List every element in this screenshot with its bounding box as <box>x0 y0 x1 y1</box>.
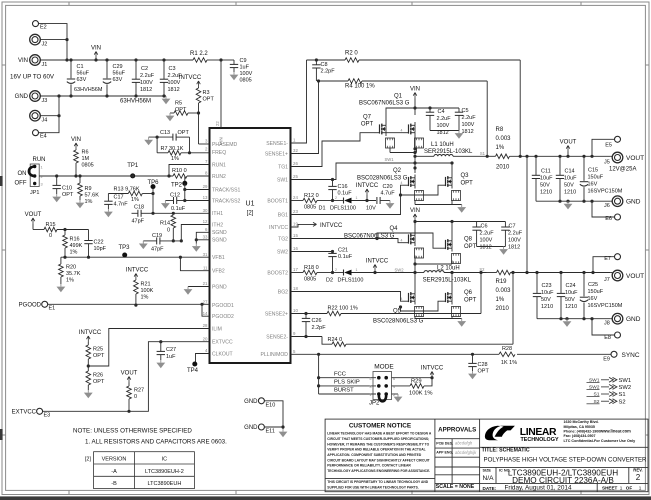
svg-text:R22 100 1%: R22 100 1% <box>328 306 358 312</box>
connector E5 <box>615 136 621 142</box>
svg-text:2: 2 <box>335 196 337 200</box>
svg-text:PGOOD: PGOOD <box>19 303 42 309</box>
wire BG1 to low-side gates <box>291 185 404 214</box>
resistor R19 0.003 1% <box>497 270 511 275</box>
capacitor C8 2.2pF <box>315 60 317 65</box>
svg-text:0.1uF: 0.1uF <box>338 254 353 260</box>
connector E9 SYNC <box>611 351 617 357</box>
svg-text:C26: C26 <box>312 318 322 324</box>
JP2 shunt pins 1-2 <box>379 395 386 401</box>
ground left of R5 <box>169 113 171 116</box>
svg-text:SENSE2+: SENSE2+ <box>265 311 288 317</box>
svg-text:1%: 1% <box>131 197 139 203</box>
svg-text:LINEAR TECHNOLOGY HAS MADE A B: LINEAR TECHNOLOGY HAS MADE A BEST EFFORT… <box>327 432 432 436</box>
svg-text:1%: 1% <box>496 297 505 303</box>
resistor R13 <box>108 193 128 195</box>
wire SW1 pin to node <box>291 163 416 180</box>
connector J2 <box>30 34 41 45</box>
capacitor C5 2.2uF <box>458 108 460 112</box>
svg-text:50V: 50V <box>564 183 574 189</box>
resistor R3 OPT <box>196 88 201 103</box>
svg-text:C10: C10 <box>62 186 72 192</box>
svg-text:HOWEVER, IT REMAINS THE CUSTOM: HOWEVER, IT REMAINS THE CUSTOMER'S RESPO… <box>327 442 429 446</box>
svg-text:4: 4 <box>401 129 403 133</box>
svg-text:0.003: 0.003 <box>496 288 512 294</box>
resistor R24 0 <box>332 342 346 347</box>
svg-text:16V: 16V <box>588 182 598 188</box>
transistor Q4 source pads <box>415 248 424 258</box>
jumper JP1 RUN select <box>30 164 39 187</box>
resistor R22 100 1% <box>327 311 341 316</box>
wire ILIM to divider <box>88 329 209 367</box>
svg-text:abcdefgh: abcdefgh <box>455 441 473 446</box>
svg-text:CUSTOMER NOTICE: CUSTOMER NOTICE <box>349 422 412 429</box>
resistor R9 57.6K <box>79 176 81 183</box>
test point TP6 <box>151 184 156 189</box>
svg-text:INTVCC: INTVCC <box>320 223 343 229</box>
wire SENSE2- line with R24 <box>291 336 323 338</box>
svg-text:1: 1 <box>639 485 642 490</box>
svg-text:499K: 499K <box>70 243 83 249</box>
transistor Q2 source pads <box>415 191 424 201</box>
svg-text:L1 10uH: L1 10uH <box>431 142 454 148</box>
wire BG2 to low-side gates phase2 <box>291 292 404 302</box>
wire SENSE1- to R2 line <box>291 60 307 143</box>
connector E10 GND <box>258 398 264 404</box>
svg-text:R10 0: R10 0 <box>172 168 187 174</box>
svg-text:C20: C20 <box>383 184 393 190</box>
svg-text:63V: 63V <box>77 77 87 83</box>
ground below C7 <box>503 247 505 250</box>
svg-text:S1: S1 <box>480 151 486 156</box>
svg-text:10pF: 10pF <box>94 246 107 252</box>
svg-text:2010: 2010 <box>496 306 510 312</box>
wire TG1 to gates <box>291 133 375 167</box>
svg-text:100V: 100V <box>480 238 493 244</box>
wire R4 down to S1 <box>486 81 488 156</box>
ground low-side phase1 <box>461 205 463 208</box>
svg-text:1: 1 <box>369 393 371 397</box>
svg-text:12: 12 <box>203 219 208 224</box>
wire mode select verticals <box>318 354 320 394</box>
wire E7 tie <box>593 257 614 273</box>
svg-text:E11: E11 <box>266 429 275 435</box>
svg-text:R9: R9 <box>85 186 92 192</box>
svg-text:C13: C13 <box>160 130 170 136</box>
svg-text:BSC028N06LS3 G: BSC028N06LS3 G <box>373 319 424 325</box>
wire BOOST2 line <box>291 272 304 274</box>
ground below C5 <box>458 131 460 134</box>
svg-text:E3: E3 <box>44 413 51 419</box>
svg-text:J5: J5 <box>604 160 610 166</box>
svg-text:TP3: TP3 <box>118 245 130 251</box>
wire FREQ loop sides <box>156 137 158 153</box>
svg-text:TP4: TP4 <box>187 368 199 374</box>
svg-text:SGND: SGND <box>212 238 227 244</box>
svg-text:SW2: SW2 <box>619 385 632 391</box>
resistor R10 <box>173 174 187 179</box>
svg-text:16SVPC150M: 16SVPC150M <box>588 303 623 309</box>
capacitor C14 10uF <box>558 155 561 158</box>
connector J8 GND <box>612 313 623 324</box>
svg-text:GND: GND <box>626 199 641 206</box>
svg-text:1812: 1812 <box>480 245 492 251</box>
svg-text:2.2uF: 2.2uF <box>437 116 452 122</box>
svg-text:20: 20 <box>203 336 208 341</box>
capacitor C19 47pF <box>143 240 156 242</box>
svg-text:26: 26 <box>293 161 298 166</box>
svg-text:PHASEMD: PHASEMD <box>212 142 238 148</box>
svg-text:0805: 0805 <box>304 205 316 211</box>
ground left of C13 <box>148 137 150 140</box>
node VIN label at rail <box>94 52 98 58</box>
svg-text:2: 2 <box>335 268 337 272</box>
resistor R15 <box>33 229 44 231</box>
svg-text:TRACK/SS1: TRACK/SS1 <box>212 187 240 193</box>
svg-text:2.2pF: 2.2pF <box>312 325 327 331</box>
svg-text:17: 17 <box>293 267 298 272</box>
resistor R28 1K <box>499 352 515 357</box>
svg-text:R21: R21 <box>141 282 151 288</box>
svg-text:DATE:: DATE: <box>483 486 497 491</box>
svg-text:BURST: BURST <box>334 388 354 394</box>
svg-text:SUPPLIED FOR USE WITH LINEAR T: SUPPLIED FOR USE WITH LINEAR TECHNOLOGY … <box>327 486 419 490</box>
svg-text:R19: R19 <box>496 279 508 285</box>
svg-text:J3: J3 <box>42 98 48 104</box>
connector J1 VIN input <box>30 55 41 66</box>
wire R22 up to S2 <box>480 273 482 314</box>
svg-text:R25: R25 <box>93 347 103 353</box>
capacitor C25 150uF polarized <box>582 271 585 274</box>
svg-text:10uF: 10uF <box>565 290 578 296</box>
svg-text:TP1: TP1 <box>127 163 139 169</box>
svg-text:3: 3 <box>369 385 371 389</box>
wire VFB1 line <box>61 256 210 258</box>
svg-text:J2: J2 <box>42 42 48 48</box>
wire low-side source rail phase1 <box>414 201 416 205</box>
svg-text:63HVH56M: 63HVH56M <box>120 99 151 105</box>
resistor R25 OPT <box>86 345 91 359</box>
capacitor C3 <box>163 60 165 79</box>
svg-text:PGOOD1: PGOOD1 <box>212 303 234 309</box>
connector E11 GND <box>258 424 264 430</box>
svg-text:1%: 1% <box>70 250 78 256</box>
transistor Q5 source pads <box>415 307 424 317</box>
capacitor C2 <box>135 60 137 79</box>
connector J7 VOUT <box>612 270 623 281</box>
connector E4 <box>33 130 39 136</box>
connector J6 GND <box>612 196 623 207</box>
svg-text:SHEET: SHEET <box>602 485 618 490</box>
resistor R14 <box>171 215 176 228</box>
svg-text:30: 30 <box>203 208 208 213</box>
svg-text:BG1: BG1 <box>278 212 288 218</box>
svg-text:C29: C29 <box>113 64 123 70</box>
svg-text:J6: J6 <box>604 203 610 209</box>
svg-text:1210: 1210 <box>564 190 576 196</box>
svg-text:R4 100 1%: R4 100 1% <box>345 84 375 90</box>
wire SW2 pin to boost cap <box>291 251 333 253</box>
ground JP2 pin2 <box>392 393 399 395</box>
ground below C17 <box>107 209 109 212</box>
svg-text:50V: 50V <box>541 297 551 303</box>
svg-text:C4: C4 <box>438 109 445 115</box>
svg-text:4.7nF: 4.7nF <box>114 202 129 208</box>
svg-text:JP2: JP2 <box>369 401 380 407</box>
capacitor C20 4.7uF <box>376 197 378 204</box>
svg-text:35.7K: 35.7K <box>66 271 81 277</box>
svg-text:VIN: VIN <box>71 137 81 143</box>
svg-text:BG2: BG2 <box>278 289 288 295</box>
ground SGND <box>195 244 197 247</box>
svg-text:R14: R14 <box>160 221 170 227</box>
wire cap bottoms rail1 <box>536 200 611 202</box>
svg-text:R18 0: R18 0 <box>304 265 319 271</box>
svg-text:C19: C19 <box>152 233 162 239</box>
svg-text:R20: R20 <box>66 265 76 271</box>
svg-text:100V: 100V <box>140 80 153 86</box>
svg-text:RUN1: RUN1 <box>212 162 226 168</box>
svg-text:R2 0: R2 0 <box>345 51 358 57</box>
capacitor C23 10uF <box>535 271 538 274</box>
capacitor C17 4.7nF <box>107 194 109 202</box>
svg-text:GND: GND <box>244 425 258 431</box>
svg-text:PGOOD2: PGOOD2 <box>212 314 234 320</box>
svg-text:100V: 100V <box>462 122 475 128</box>
svg-text:1: 1 <box>356 196 358 200</box>
svg-text:R7 30.1K: R7 30.1K <box>161 146 184 152</box>
wire E6 tie <box>592 201 614 217</box>
wire RUN1 tie <box>169 165 210 177</box>
test point TP2 <box>184 176 186 183</box>
ground low-side phase2 <box>461 319 463 322</box>
svg-text:1uF: 1uF <box>240 65 250 71</box>
svg-text:www.linear.com: www.linear.com <box>599 428 631 433</box>
connector E1 PGOOD <box>42 301 48 307</box>
svg-text:31: 31 <box>203 252 208 257</box>
wire Q3 drain to SW1 <box>451 163 453 175</box>
resistor R12 0 <box>303 198 317 203</box>
svg-text:10uF: 10uF <box>541 290 554 296</box>
svg-text:PERFORMANCE OR RELIABILITY. C: PERFORMANCE OR RELIABILITY. CONTACT LINE… <box>327 464 411 468</box>
svg-text:R5: R5 <box>175 101 182 107</box>
svg-text:SENSE2-: SENSE2- <box>266 334 288 340</box>
svg-text:PGND: PGND <box>212 284 227 290</box>
ground left of C12 <box>164 201 166 204</box>
svg-text:-A: -A <box>111 469 117 475</box>
wire RUN rail to RUN2 <box>39 175 173 177</box>
resistor R26 OPT <box>86 371 91 385</box>
ground at input rail <box>165 96 167 99</box>
Linear Technology logo <box>485 426 515 441</box>
svg-text:Q4: Q4 <box>389 226 398 232</box>
svg-text:TRACK/SS2: TRACK/SS2 <box>212 198 240 204</box>
wire GND rail from J3 <box>40 95 166 97</box>
wire TP6 stem to ITH1 line <box>152 194 154 214</box>
svg-text:FCC: FCC <box>334 371 346 377</box>
svg-text:INTVCC: INTVCC <box>79 330 102 336</box>
svg-text:GND: GND <box>244 399 258 405</box>
svg-text:S1: S1 <box>619 392 626 398</box>
svg-text:VERSION: VERSION <box>102 457 127 463</box>
transistor Q1 source pads <box>415 138 424 148</box>
capacitor C9 <box>221 59 234 61</box>
svg-text:1%: 1% <box>141 295 149 301</box>
svg-text:1: 1 <box>620 485 623 490</box>
svg-text:R15: R15 <box>46 222 56 228</box>
svg-text:PLLIN/MOD: PLLIN/MOD <box>261 352 289 358</box>
svg-text:1812: 1812 <box>462 129 474 135</box>
svg-text:Q6: Q6 <box>464 290 473 296</box>
svg-text:4.7uF: 4.7uF <box>381 191 396 197</box>
svg-text:Q3: Q3 <box>461 173 470 179</box>
svg-text:Q1: Q1 <box>394 94 403 100</box>
svg-text:THIS CIRCUIT IS PROPRIETARY TO: THIS CIRCUIT IS PROPRIETARY TO LINEAR TE… <box>327 480 428 484</box>
wire SENSE2+ line with R22 <box>291 313 328 315</box>
svg-text:VIN: VIN <box>91 46 101 52</box>
svg-text:10: 10 <box>293 308 298 313</box>
wire E2/J2 to VIN rail <box>39 24 67 60</box>
svg-text:SW2: SW2 <box>277 249 288 255</box>
svg-text:abcdefghijk: abcdefghijk <box>455 450 477 455</box>
capacitor C16 0.1uF boost1 <box>332 180 334 187</box>
svg-text:12V@25A: 12V@25A <box>609 167 636 173</box>
wire C4/C5 bottoms <box>430 130 459 132</box>
wire Q7 drain to VIN node <box>386 108 415 122</box>
wire cap bottoms rail2 <box>537 318 611 320</box>
svg-text:R13 9.76K: R13 9.76K <box>114 187 140 193</box>
resistor R1 <box>193 58 207 63</box>
bottom dark edge strip <box>0 496 651 500</box>
capacitor C26 2.2pF <box>305 314 307 319</box>
test point TP3 <box>122 253 127 258</box>
svg-text:OPT: OPT <box>203 97 215 103</box>
wire PLLIN/MOD line to E9 <box>291 353 500 355</box>
svg-text:2010: 2010 <box>496 165 510 171</box>
svg-text:VFB2: VFB2 <box>212 269 225 275</box>
svg-text:INTVCC: INTVCC <box>356 183 379 189</box>
svg-text:C18: C18 <box>134 205 144 211</box>
svg-text:2.2uF: 2.2uF <box>480 231 495 237</box>
svg-text:0.1uF: 0.1uF <box>338 191 353 197</box>
wire INTVCC node down to PHASEMD pin <box>198 113 200 144</box>
svg-text:C2: C2 <box>141 66 148 72</box>
resistor R7 30.1K <box>157 152 168 154</box>
svg-text:C12: C12 <box>170 193 180 199</box>
svg-text:IC: IC <box>162 457 168 463</box>
wire SW1 node <box>389 148 391 153</box>
svg-text:RUN: RUN <box>33 157 46 163</box>
diode D2 DFLS1100 <box>343 270 345 276</box>
svg-text:SER2915L-103KL: SER2915L-103KL <box>423 278 472 284</box>
svg-text:SW1: SW1 <box>384 157 394 162</box>
svg-text:23: 23 <box>293 209 298 214</box>
svg-text:LTC3890EUH-2: LTC3890EUH-2 <box>145 469 184 475</box>
capacitor C13 OPT <box>149 136 173 138</box>
svg-text:1: 1 <box>41 166 43 170</box>
wire C6/C7 bottoms <box>477 246 506 248</box>
resistor R29 100K <box>392 385 411 387</box>
diode D1 DFLS1100 <box>343 198 345 204</box>
svg-text:100V: 100V <box>240 71 253 77</box>
wire VIN node to C6/C7 <box>415 221 505 223</box>
svg-text:Q2: Q2 <box>393 168 402 174</box>
svg-text:29: 29 <box>203 184 208 189</box>
svg-text:LTC Confidential-For Customer: LTC Confidential-For Customer Use Only <box>564 439 637 443</box>
svg-text:0.1uF: 0.1uF <box>171 206 186 212</box>
svg-text:C24: C24 <box>566 283 576 289</box>
svg-text:R8: R8 <box>496 127 504 133</box>
svg-text:JP1: JP1 <box>30 190 39 196</box>
svg-text:C1: C1 <box>77 64 84 70</box>
svg-text:C23: C23 <box>542 283 552 289</box>
op-amp U1 LTC3890 controller body <box>210 128 291 363</box>
svg-text:11: 11 <box>203 265 208 270</box>
svg-text:1812: 1812 <box>140 87 152 93</box>
svg-text:[2]: [2] <box>247 211 254 217</box>
svg-text:SIZE: SIZE <box>483 469 492 473</box>
U1 pin 22 VIN top stub <box>220 60 222 128</box>
svg-text:VIN: VIN <box>410 208 420 214</box>
JP1 shunt on pins 1-2 <box>29 167 35 177</box>
resistor R27 <box>127 386 132 399</box>
svg-text:4: 4 <box>401 239 403 243</box>
svg-text:1%: 1% <box>66 278 74 284</box>
svg-text:33: 33 <box>203 234 208 239</box>
resistor R8 0.003 1% sense <box>496 154 510 159</box>
svg-text:E2: E2 <box>40 25 47 31</box>
svg-text:SYNC: SYNC <box>622 352 640 359</box>
svg-text:Q7: Q7 <box>363 115 372 121</box>
wire E10/E11 to ground <box>265 401 283 429</box>
svg-text:13: 13 <box>203 195 208 200</box>
svg-text:BOOST1: BOOST1 <box>267 198 288 204</box>
svg-text:C15: C15 <box>588 168 598 174</box>
svg-text:INTVCC: INTVCC <box>179 75 202 81</box>
svg-text:EXTVCC: EXTVCC <box>12 410 37 416</box>
svg-text:LTC3890EUH: LTC3890EUH <box>147 481 181 487</box>
svg-text:47pF: 47pF <box>151 247 164 253</box>
svg-text:Friday, August 01, 2014: Friday, August 01, 2014 <box>504 485 571 492</box>
svg-text:C22: C22 <box>94 240 104 246</box>
resistor R16 499K <box>64 230 66 236</box>
svg-text:R6: R6 <box>82 150 89 156</box>
ground at PGND pin <box>188 286 210 288</box>
svg-text:100K: 100K <box>141 288 154 294</box>
svg-text:INTVCC: INTVCC <box>421 366 444 372</box>
ground below C9 <box>233 72 235 75</box>
svg-text:ITH1: ITH1 <box>212 211 223 217</box>
svg-text:E5: E5 <box>605 143 612 149</box>
svg-text:2.2uF: 2.2uF <box>140 73 155 79</box>
svg-text:OPT: OPT <box>461 181 474 187</box>
wire Q4/Q8 drains to VIN <box>414 225 416 233</box>
svg-text:R3: R3 <box>203 90 210 96</box>
svg-text:VOUT: VOUT <box>121 371 138 377</box>
ground output bank1 <box>567 201 569 204</box>
transistor Q8 source pads <box>452 254 461 264</box>
svg-text:1210: 1210 <box>565 304 577 310</box>
svg-text:R29: R29 <box>411 379 422 385</box>
capacitor C28 OPT <box>472 354 474 363</box>
svg-text:TP2: TP2 <box>171 183 183 189</box>
wire R4 line <box>319 80 349 82</box>
wire SGND pins to ground <box>196 232 209 243</box>
svg-text:R24 0: R24 0 <box>328 337 343 343</box>
svg-text:SENSE1-: SENSE1- <box>266 141 288 147</box>
svg-text:U1: U1 <box>246 201 255 208</box>
wire TRACK/SS1 line with TP2 tie <box>185 189 210 191</box>
